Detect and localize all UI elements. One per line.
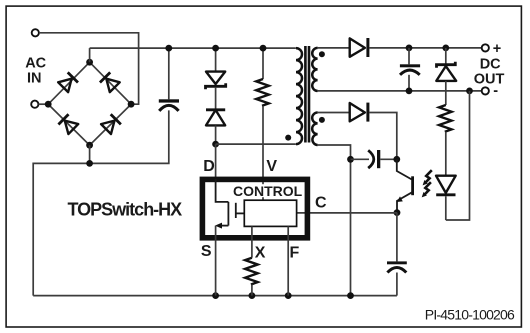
- svg-text:S: S: [201, 243, 212, 260]
- svg-text:CONTROL: CONTROL: [233, 183, 303, 199]
- wire D node to D pin: [215, 144, 217, 179]
- svg-text:V: V: [266, 158, 277, 175]
- bridge diode bottom-left: [58, 114, 78, 134]
- rail dot S: [212, 292, 219, 299]
- svg-text:OUT: OUT: [474, 72, 505, 88]
- top rail wire: [90, 47, 296, 49]
- AC IN label: [25, 56, 46, 87]
- svg-text:F: F: [290, 244, 300, 261]
- primary phase dot: [285, 135, 291, 141]
- svg-text:-: -: [493, 83, 498, 99]
- output cap node dot: [406, 45, 413, 52]
- optocoupler phototransistor: [397, 159, 414, 212]
- bias diode D-b: [350, 103, 370, 122]
- svg-text:TOPSwitch-HX: TOPSwitch-HX: [68, 200, 183, 220]
- clamp zener VR1 (cathode down): [206, 48, 226, 109]
- bridge node right: [128, 101, 135, 108]
- secondary output wire: [318, 47, 350, 49]
- bridge diode top-right: [100, 72, 120, 92]
- node dot clamp top: [212, 45, 219, 52]
- DC+ wire: [369, 47, 481, 49]
- bias winding top wire: [318, 112, 350, 114]
- bridge node top: [86, 59, 93, 66]
- bridge node left: [45, 101, 52, 108]
- sense zener VR2 (cathode up): [436, 48, 456, 105]
- output filter capacitor C-out: [400, 48, 420, 91]
- transformer core: [304, 46, 310, 143]
- zener branch node dot: [442, 45, 449, 52]
- primary return wire to left rail: [33, 110, 169, 295]
- F pin wire: [287, 226, 289, 295]
- bridge node bottom: [86, 142, 93, 149]
- AC terminal bottom: [31, 101, 38, 108]
- return cap dot: [406, 88, 413, 95]
- TOPSwitch-HX IC outline: [202, 179, 307, 237]
- output return wire: [318, 90, 482, 92]
- rail dot X: [249, 292, 256, 299]
- optocoupler LED: [436, 176, 456, 220]
- light arrow 1: [423, 170, 432, 185]
- transformer T1 primary winding: [296, 48, 302, 144]
- C pin bypass capacitor: [387, 213, 407, 296]
- clamp blocking diode D-blk (cathode up): [206, 110, 225, 144]
- wire bridge top vertex to top rail: [89, 48, 91, 62]
- rail dot F: [285, 292, 292, 299]
- bridge diode bottom-right: [101, 114, 121, 134]
- X pin wire + resistor: [245, 226, 258, 295]
- wire from AC bottom terminal to bridge left vertex: [39, 103, 49, 105]
- svg-text:C: C: [315, 195, 327, 212]
- svg-text:AC: AC: [25, 56, 46, 72]
- wire from AC top terminal to bridge right vertex: [39, 33, 139, 104]
- svg-text:X: X: [255, 245, 266, 262]
- output rectifier diode D-out: [350, 38, 370, 57]
- junction dot bridge-return: [86, 160, 93, 167]
- bias cap node dot: [347, 156, 354, 163]
- node dot V resistor top: [260, 45, 267, 52]
- control inner box: [244, 200, 296, 226]
- CONTROL box white bg: [231, 184, 304, 197]
- V-pin resistor R-V: [256, 48, 269, 200]
- ground rail: [33, 295, 397, 297]
- feedback loop wire LED to DC- rail: [446, 91, 470, 220]
- sense resistor R-fb: [439, 105, 452, 176]
- svg-text:PI-4510-100206: PI-4510-100206: [425, 306, 515, 322]
- svg-text:IN: IN: [27, 71, 42, 87]
- node dot C-in top: [165, 45, 172, 52]
- secondary phase dot: [319, 51, 325, 57]
- DC- terminal: [482, 87, 489, 94]
- bridge diamond wires: [48, 62, 131, 145]
- DC+ terminal: [482, 44, 489, 51]
- rail dot bias return: [347, 292, 354, 299]
- wire bridge bottom vertex down: [89, 145, 91, 163]
- svg-text:DC: DC: [480, 57, 501, 73]
- C pin node dot: [394, 209, 401, 216]
- bridge diode top-left: [58, 72, 78, 92]
- bias return wire: [318, 145, 351, 296]
- wire bias diode to opto collector node: [369, 113, 396, 160]
- return feedback dot: [466, 88, 473, 95]
- transformer bias winding: [312, 113, 317, 146]
- wire D node to primary bottom: [216, 143, 296, 145]
- AC terminal top: [32, 29, 39, 36]
- MOSFET inside IC: [215, 179, 244, 296]
- svg-text:+: +: [493, 41, 501, 57]
- node D junction dot: [212, 141, 219, 148]
- DC OUT labels: [474, 41, 505, 99]
- transformer secondary winding: [312, 48, 317, 91]
- C pin wire: [297, 212, 397, 214]
- bias phase dot: [319, 117, 325, 123]
- svg-text:D: D: [203, 158, 215, 175]
- input bulk capacitor C-in: [159, 48, 179, 111]
- opto collector node dot: [393, 156, 400, 163]
- bias capacitor C-b: [351, 150, 397, 168]
- light arrow 2: [422, 182, 431, 197]
